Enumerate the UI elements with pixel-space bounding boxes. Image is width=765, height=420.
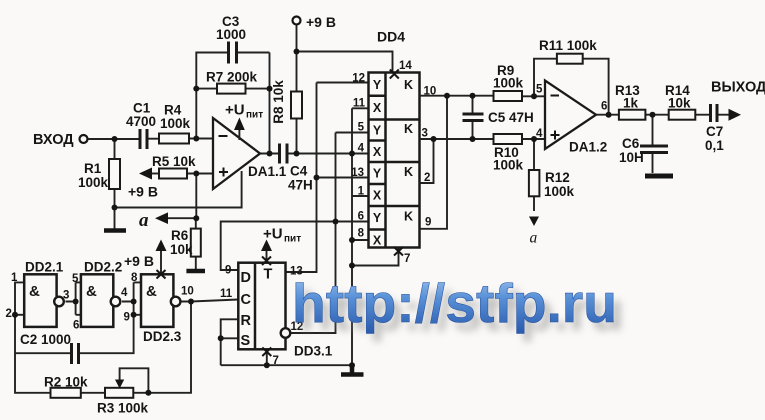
svg-text:DD3.1: DD3.1 <box>294 344 333 359</box>
junction DD2.3 pin 9 tee <box>131 312 137 318</box>
wire DD2.1 input rail pins 1,2 down to C2 and R2 <box>15 282 51 392</box>
junction R1 bottom row <box>112 205 118 211</box>
svg-text:DA1.1: DA1.1 <box>248 164 287 179</box>
wire DD2.3 +9V stem <box>160 249 162 274</box>
junction pin2 tie <box>431 136 437 142</box>
wire C3 right lead <box>237 52 270 54</box>
+9V terminal top <box>293 17 301 25</box>
capacitor C2 <box>72 343 79 364</box>
svg-text:&: & <box>86 283 97 300</box>
wire DD3.1 R S tie to ground rail <box>221 319 239 365</box>
wire DD2.3 output to DD3.1 C input <box>182 300 239 302</box>
wire R7 left lead <box>196 88 217 90</box>
watermark http://stfp.ru <box>292 272 624 342</box>
svg-text:R1: R1 <box>84 161 102 176</box>
svg-text:Y: Y <box>373 167 382 181</box>
capacitor C7 <box>711 104 718 122</box>
svg-text:пит: пит <box>246 110 263 121</box>
resistor R5 <box>159 169 187 179</box>
DD3.1 output bubble pin 12 <box>281 328 291 338</box>
resistor R10 <box>494 134 523 144</box>
junction node a <box>193 215 199 221</box>
resistor R4 <box>159 134 189 144</box>
wire DD4 pin 10 to R9 <box>420 95 494 97</box>
wire DD4 pin 2 tie to pin 3 <box>420 139 434 183</box>
svg-text:8: 8 <box>358 228 365 240</box>
svg-text:R3 100k: R3 100k <box>97 401 149 416</box>
wire R3 right lead <box>133 392 148 394</box>
svg-text:Y: Y <box>373 211 382 225</box>
resistor R9 <box>494 91 523 101</box>
svg-text:9: 9 <box>225 265 231 277</box>
junction dots right half <box>431 93 656 142</box>
svg-text:4: 4 <box>358 143 365 155</box>
wire DD4 pin 5 <box>336 132 369 134</box>
wire R1 bottom lead to ground <box>114 189 116 229</box>
resistor R12 <box>529 170 540 196</box>
analog switch DD4 <box>369 73 420 248</box>
svg-text:11: 11 <box>353 98 366 110</box>
svg-text:7: 7 <box>404 253 410 265</box>
wire DD4 pin 1 <box>352 195 369 197</box>
svg-text:S: S <box>241 333 251 349</box>
wire C4 to DD4 X inputs <box>287 153 369 155</box>
svg-text:14: 14 <box>399 60 412 72</box>
junction DA1.2 pin4/R12 <box>531 136 537 142</box>
svg-text:a: a <box>530 230 538 247</box>
wire non-inverting node down to node a <box>195 174 197 219</box>
junction R7 left <box>193 86 199 92</box>
junction DD2.1 output node <box>73 299 79 305</box>
svg-text:R2 10k: R2 10k <box>44 375 88 390</box>
potentiometer R3 <box>105 388 133 398</box>
svg-text:+9 В: +9 В <box>128 184 158 200</box>
wire input to C1 <box>88 138 139 140</box>
svg-text:DA1.2: DA1.2 <box>569 140 607 155</box>
svg-text:4: 4 <box>536 128 543 140</box>
+Uпит arrow DD3.1 <box>261 240 272 252</box>
svg-text:X: X <box>373 145 382 159</box>
resistor R2 <box>51 388 81 398</box>
resistor R13 <box>619 110 646 120</box>
wire DD4 pin 8 <box>352 239 369 241</box>
wire R10 to DA1.2 non-inverting input <box>522 138 545 140</box>
junction DA1.2 pin5 <box>531 93 537 99</box>
svg-text:12: 12 <box>352 73 365 85</box>
junction pin9 tie <box>444 93 450 99</box>
svg-text:0,1: 0,1 <box>705 138 724 153</box>
wire R12 bottom lead to node a <box>533 196 535 211</box>
wire R12 top lead <box>533 139 535 170</box>
wire R8 top lead from +9V rail <box>296 52 298 92</box>
wire DD4 pin 9 tie to pin 10 <box>420 96 448 229</box>
svg-text:C7: C7 <box>706 124 723 139</box>
svg-text:3: 3 <box>422 128 428 140</box>
resistor R14 <box>669 110 696 120</box>
wire signal vertical X1-X2-X3-X4 down to ground <box>351 108 353 365</box>
wire C1 to R4 <box>148 138 159 140</box>
junction R7 right <box>267 86 273 92</box>
svg-text:5: 5 <box>536 84 543 96</box>
power mark X on DD3.1 T pin <box>262 257 271 266</box>
svg-text:13: 13 <box>351 167 364 179</box>
wire R8 bottom lead to signal <box>296 119 298 154</box>
node a arrow down at R12 <box>529 217 539 227</box>
svg-text:a: a <box>139 210 149 231</box>
wire DD4 pin 13 <box>317 177 369 179</box>
junction pin 7 rail <box>264 362 270 368</box>
wire R9 to DA1.2 inverting input <box>522 95 545 97</box>
junction rail pin 2 <box>12 312 18 318</box>
svg-text:X: X <box>373 101 382 115</box>
junction pin6/D row <box>333 219 339 225</box>
NAND gate DD2.3 <box>141 274 173 327</box>
wire DD3.1 T pin stem <box>266 250 268 263</box>
wire vertical pin12/pin13 to DD3.1 pin 13 <box>286 83 317 273</box>
+9V arrow above DD2.3 <box>156 240 167 252</box>
ground under C6 <box>645 174 673 179</box>
+Uпит arrow DA1.1 <box>238 128 240 140</box>
svg-text:C4: C4 <box>290 164 308 179</box>
capacitor C6 <box>640 146 668 153</box>
svg-text:пит: пит <box>284 234 301 245</box>
svg-text:http://stfp.ru: http://stfp.ru <box>292 272 617 334</box>
wire R7 right lead <box>246 88 270 90</box>
junction R3 wiper <box>145 390 151 396</box>
svg-text:R8 10k: R8 10k <box>271 80 286 124</box>
capacitor C5 <box>463 114 484 121</box>
svg-text:1000: 1000 <box>216 27 246 42</box>
junction pin7 elbow <box>349 263 355 269</box>
svg-text:ВХОД: ВХОД <box>33 132 74 148</box>
svg-text:100k: 100k <box>544 184 575 199</box>
svg-text:Y: Y <box>373 78 382 92</box>
svg-text:C2 1000: C2 1000 <box>20 332 71 347</box>
ground under R6 <box>186 269 205 274</box>
power mark X on DD2.3 <box>157 270 166 279</box>
resistor R11 <box>557 54 583 64</box>
wire node a row <box>167 217 196 219</box>
wire DD2.3 output down to R3 wiper node <box>148 302 191 393</box>
svg-text:100k: 100k <box>493 76 524 91</box>
wire C5 leads <box>472 96 474 139</box>
op-amp DA1.2 <box>545 81 596 150</box>
svg-text:9: 9 <box>425 217 431 229</box>
wire R2 to R3 <box>81 392 105 394</box>
capacitor C4 <box>280 144 288 164</box>
wire C7 to output arrow <box>718 114 729 116</box>
wire R6 leads <box>195 218 197 270</box>
junction DD2.3 output node <box>188 299 194 305</box>
svg-text:+U: +U <box>263 226 283 243</box>
svg-text:C: C <box>241 292 252 308</box>
wire DD2.1 output to DD2.2 inputs <box>66 282 81 314</box>
svg-text:&: & <box>146 283 157 300</box>
power mark X at DD4 pin 14 <box>390 70 399 79</box>
node a arrow left <box>155 212 168 224</box>
junction dots bottom <box>12 299 355 396</box>
svg-text:DD2.3: DD2.3 <box>143 329 182 344</box>
wire C2 row left <box>15 352 71 354</box>
ground under R1 <box>104 228 126 233</box>
junction signal/X line <box>349 151 355 157</box>
wire R4 to DA1.1 inverting input <box>189 138 213 140</box>
wire vertical Y2 to DD3.1 pin 12 <box>291 133 336 334</box>
svg-text:R7 200k: R7 200k <box>206 70 258 85</box>
svg-text:K: K <box>404 78 413 92</box>
junction non-inverting node <box>193 171 199 177</box>
junction +9V rail <box>294 49 300 55</box>
junction output/feedback <box>267 151 273 157</box>
svg-text:R12: R12 <box>545 170 570 185</box>
svg-text:R6: R6 <box>171 228 189 243</box>
svg-text:K: K <box>404 165 413 179</box>
op-amp DA1.1 <box>213 118 260 189</box>
svg-text:4: 4 <box>121 287 128 299</box>
svg-text:4700: 4700 <box>126 114 156 129</box>
wire feedback right vertical to output <box>269 53 271 154</box>
svg-text:D: D <box>241 270 251 286</box>
svg-text:DD4: DD4 <box>377 29 405 45</box>
svg-text:K: K <box>404 210 413 224</box>
svg-text:11: 11 <box>220 288 233 300</box>
junction C4/R8 <box>294 151 300 157</box>
svg-text:8: 8 <box>131 272 138 284</box>
svg-text:X: X <box>373 189 382 203</box>
svg-text:100k: 100k <box>78 175 109 190</box>
wire DA1.2 output to R13 <box>596 114 619 116</box>
svg-text:6: 6 <box>358 211 364 223</box>
junction input/R1 <box>112 136 118 142</box>
svg-text:10k: 10k <box>170 242 193 257</box>
svg-text:47Н: 47Н <box>288 178 313 193</box>
wire DA1.1 output to C4 <box>258 153 279 155</box>
junction C5 top <box>470 93 476 99</box>
svg-text:5: 5 <box>358 122 365 134</box>
svg-text:+9 В: +9 В <box>124 253 154 269</box>
wire DD4 pin 12 <box>317 82 369 84</box>
svg-text:DD2.1: DD2.1 <box>25 260 64 275</box>
wire R3 wiper loop <box>120 368 149 393</box>
NAND gate DD2.2 <box>81 274 113 327</box>
junction DD2.2 output node <box>131 299 137 305</box>
junction pin13 branch <box>314 175 320 181</box>
resistor R7 <box>217 84 246 94</box>
NAND gate DD2.1 <box>24 274 56 327</box>
wire DD3.1 pin 7 stub <box>266 349 268 365</box>
svg-text:X: X <box>373 234 382 248</box>
wire +9V terminal to DD4 pin 14 <box>297 25 393 73</box>
svg-text:9: 9 <box>124 312 130 324</box>
capacitor C1 <box>140 129 147 149</box>
wire R13 to R14 <box>645 114 668 116</box>
wire R1 top lead <box>114 139 116 159</box>
svg-text:R: R <box>241 313 252 329</box>
svg-text:1: 1 <box>358 186 365 198</box>
svg-text:7: 7 <box>273 355 279 367</box>
svg-text:K: K <box>404 122 413 136</box>
power mark X on DD3.1 pin 7 <box>262 348 271 357</box>
wire C6 leads <box>652 115 654 173</box>
svg-text:ВЫХОД: ВЫХОД <box>711 80 765 96</box>
svg-text:5: 5 <box>72 273 79 285</box>
junction pin8 branch <box>349 237 355 243</box>
+9V arrow at R5 <box>139 168 152 180</box>
svg-text:R5 10k: R5 10k <box>152 154 196 169</box>
svg-text:+U: +U <box>225 102 245 119</box>
junction C6 tap <box>650 112 656 118</box>
svg-text:2: 2 <box>6 308 12 320</box>
junction C5 bottom <box>470 136 476 142</box>
junction rail ground <box>349 362 355 368</box>
junction R S tie <box>218 335 224 341</box>
resistor R8 <box>291 92 302 119</box>
svg-text:1: 1 <box>11 272 18 284</box>
svg-text:R11 100k: R11 100k <box>539 38 597 53</box>
junction DA1.2 output <box>606 112 612 118</box>
junction inverting node <box>193 136 199 142</box>
wire R5 to DA1.1 non-inverting input <box>187 173 213 175</box>
wire ground rail under DD3.1 <box>221 364 352 366</box>
junction dots left half <box>112 49 356 269</box>
svg-text:Y: Y <box>373 124 382 138</box>
svg-text:3: 3 <box>63 290 69 302</box>
output arrow <box>729 109 742 121</box>
D flip-flop DD3.1 <box>238 263 285 350</box>
svg-text:&: & <box>29 283 40 300</box>
wire DD2.2 output to DD2.3 inputs <box>122 282 141 314</box>
input terminal <box>80 135 88 143</box>
wire feedback left vertical to R7/C3 <box>196 53 228 139</box>
capacitor C3 <box>229 42 237 64</box>
svg-text:+9 В: +9 В <box>306 14 336 30</box>
svg-text:DD2.2: DD2.2 <box>84 260 122 275</box>
wire R5 to arrow <box>152 173 161 175</box>
resistor R1 <box>109 159 120 189</box>
svg-text:6: 6 <box>601 101 607 113</box>
svg-text:100k: 100k <box>493 158 524 173</box>
wire R14 to C7 <box>695 114 710 116</box>
svg-text:100k: 100k <box>160 116 191 131</box>
wire DD4 pin 7 elbow to ground vertical <box>352 248 399 266</box>
svg-text:10: 10 <box>181 286 194 298</box>
wire DD4 pin 11 <box>352 107 369 109</box>
svg-text:C6: C6 <box>622 136 640 151</box>
svg-text:10Н: 10Н <box>619 150 644 165</box>
wire bottom common row to op-amp underside <box>115 171 242 208</box>
wire C2 row right to pin4/9 node <box>80 315 134 353</box>
svg-text:C5 47Н: C5 47Н <box>488 110 534 125</box>
svg-text:10k: 10k <box>668 96 691 111</box>
svg-text:6: 6 <box>73 320 79 332</box>
svg-text:1k: 1k <box>623 96 639 111</box>
wire DD2.1 pin 2 stub <box>15 314 24 316</box>
wire DD4 pin 3 to R10 <box>420 138 494 140</box>
wire R11 feedback <box>534 59 609 115</box>
svg-text:T: T <box>264 267 273 283</box>
ground at rail end <box>341 365 364 374</box>
resistor R6 <box>191 229 201 257</box>
wire DD4 pin 6 row to DD3.1 D input <box>221 222 369 271</box>
power mark X at DD4 pin 7 <box>394 247 403 256</box>
